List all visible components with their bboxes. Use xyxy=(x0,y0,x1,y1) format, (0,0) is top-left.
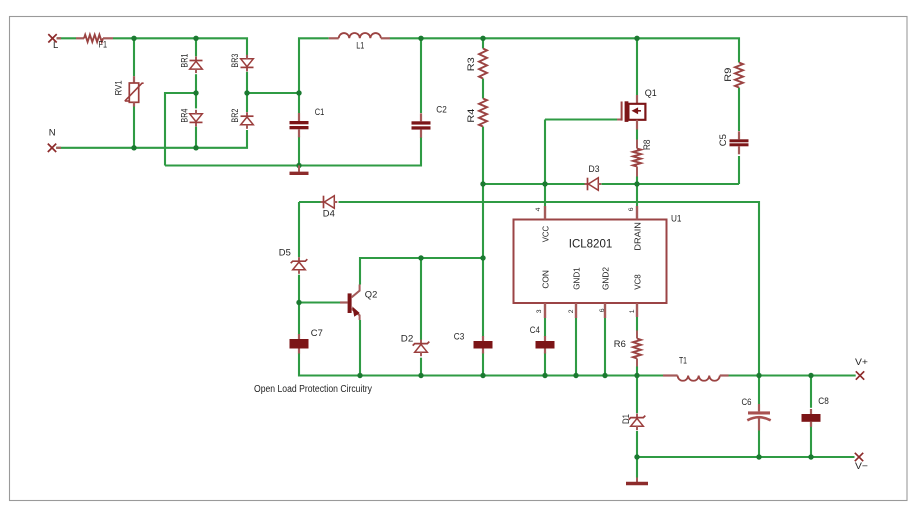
bridge diode BR1 xyxy=(195,57,197,61)
U1 pin 4 VCC xyxy=(544,206,546,220)
wire: Q2 base wire xyxy=(299,301,340,303)
diode D4 xyxy=(321,201,324,203)
svg-text:C2: C2 xyxy=(436,104,447,115)
inductor T1 xyxy=(663,374,678,376)
svg-text:L: L xyxy=(53,40,58,51)
wire: C4 bottom lead xyxy=(544,352,546,375)
svg-text:F1: F1 xyxy=(99,40,108,51)
svg-text:DRAIN: DRAIN xyxy=(634,222,643,251)
wire: R3-R4 link xyxy=(482,79,484,99)
fuse F1 xyxy=(76,37,84,39)
svg-text:2: 2 xyxy=(568,309,575,313)
junction dots on ground rail xyxy=(357,373,362,378)
wire: mid node to C1 top xyxy=(247,93,299,113)
junction dots on VCC/D3 rail xyxy=(480,181,485,186)
wire: L input rail from terminal to fuse xyxy=(57,37,76,39)
wire: rectified + node to L1 (C1 top branch) xyxy=(299,38,329,93)
wire: VCC rail segment R4 junction to D3 xyxy=(483,183,585,185)
U1 pin 6 DRAIN xyxy=(636,206,638,220)
wire: C8 bottom lead xyxy=(810,422,812,457)
wire: VCB pin to R6 xyxy=(636,317,638,331)
zener diode D5 xyxy=(298,257,300,261)
wire: GND2 pin to ground rail xyxy=(604,318,606,376)
capacitor C6 xyxy=(758,404,760,411)
svg-text:VC8: VC8 xyxy=(634,274,643,290)
wire: BR4 bottom to N rail xyxy=(195,127,197,148)
svg-text:D4: D4 xyxy=(323,209,335,220)
wire: L rail from fuse to BR3 top xyxy=(113,38,247,57)
wire: Q2 emitter to ground rail xyxy=(359,320,361,376)
svg-text:6: 6 xyxy=(599,308,606,312)
svg-text:BR3: BR3 xyxy=(230,54,240,68)
capacitor C7 xyxy=(298,334,300,339)
svg-text:C6: C6 xyxy=(742,397,752,408)
svg-text:R6: R6 xyxy=(614,339,626,350)
wire: R4 bottom down to open-load rail xyxy=(482,127,484,259)
wire: BR4 top lead xyxy=(195,93,197,108)
zener diode D2 xyxy=(420,340,422,344)
junction dot at Q2 base node xyxy=(296,300,301,305)
svg-text:R3: R3 xyxy=(466,57,476,71)
wire: T1 output to V+ terminal xyxy=(728,374,855,376)
wire: Q1 gate wire xyxy=(545,118,617,120)
terminal L xyxy=(48,34,56,42)
svg-text:GND2: GND2 xyxy=(602,266,611,290)
svg-text:CON: CON xyxy=(542,270,551,289)
svg-text:BR4: BR4 xyxy=(179,109,189,123)
svg-text:4: 4 xyxy=(535,207,542,211)
svg-text:D5: D5 xyxy=(279,248,291,259)
svg-text:R9: R9 xyxy=(723,68,733,82)
terminal V+ xyxy=(856,371,864,379)
wire: R3 top lead xyxy=(482,38,484,48)
ground at V- rail xyxy=(636,478,638,483)
wire: bridge minus jog to ground rail xyxy=(165,93,196,166)
svg-text:C5: C5 xyxy=(718,134,728,146)
svg-text:C1: C1 xyxy=(315,107,325,118)
svg-text:BR1: BR1 xyxy=(179,54,189,68)
wire: BR3 bottom to mid node xyxy=(246,72,248,93)
resistor R3 xyxy=(479,49,487,79)
svg-text:BR2: BR2 xyxy=(230,109,240,123)
wire: feedback column to C3 top xyxy=(482,258,484,337)
svg-text:RV1: RV1 xyxy=(113,80,123,95)
capacitor C8 xyxy=(810,409,812,414)
wire: D1 top lead xyxy=(636,376,638,414)
svg-text:ICL8201: ICL8201 xyxy=(569,236,613,250)
wire: protection column D4 to D5 xyxy=(298,202,300,257)
transistor Q1 xyxy=(636,95,638,104)
terminal V- xyxy=(855,453,863,461)
svg-text:N: N xyxy=(49,127,56,138)
resistor R9 xyxy=(735,63,743,88)
wire: D4 output rail to V+ column xyxy=(339,202,760,404)
junction dots on N rail xyxy=(131,145,136,150)
wire: D2 top lead xyxy=(420,258,422,340)
wire: V- rail to ground stem xyxy=(636,457,638,478)
wire: C5 bottom to snubber rail corner xyxy=(738,156,740,184)
zener diode D1 xyxy=(636,414,638,418)
bridge diode BR3 xyxy=(246,67,248,71)
svg-text:C8: C8 xyxy=(818,396,829,407)
wire: N rail from terminal to BR2 bottom xyxy=(56,130,247,148)
wire: gate column down to VCC node xyxy=(544,120,546,207)
wire: ground rail C1 bottom to C2 bottom xyxy=(165,137,421,166)
svg-text:D2: D2 xyxy=(401,333,414,344)
svg-text:3: 3 xyxy=(536,309,543,313)
wire: Q1 source to R8 xyxy=(636,130,638,140)
wire: Q2 base node to C7 top xyxy=(298,303,300,335)
transistor Q2 xyxy=(340,301,348,303)
inductor L1 xyxy=(329,37,339,39)
wire: C8 top lead xyxy=(810,376,812,408)
wire: D2 bottom to ground rail xyxy=(420,358,422,376)
svg-text:R4: R4 xyxy=(466,108,476,122)
svg-text:V−: V− xyxy=(855,461,868,472)
wire: Q2 collector to open-load rail xyxy=(360,258,483,285)
junction dots on bridge mid nodes xyxy=(193,90,198,95)
IC U1 ICL8201 xyxy=(514,220,667,304)
wire: BR2 top lead xyxy=(246,93,248,112)
svg-text:C3: C3 xyxy=(454,331,465,342)
wire: BR1 bottom to mid node xyxy=(195,74,197,93)
svg-text:R8: R8 xyxy=(642,139,652,150)
wire: R9 to C5 link xyxy=(738,88,740,132)
bridge diode BR4 xyxy=(195,122,197,126)
capacitor C5 xyxy=(738,131,740,139)
junction dots on open-load rail xyxy=(418,255,423,260)
ground at C1 xyxy=(298,166,300,172)
svg-text:C4: C4 xyxy=(530,325,540,336)
wire: C1 bottom lead xyxy=(298,137,300,166)
resistor R8 xyxy=(636,140,638,149)
svg-text:D3: D3 xyxy=(589,164,600,175)
svg-text:Open Load Protection Circuitry: Open Load Protection Circuitry xyxy=(254,384,372,395)
svg-text:V+: V+ xyxy=(855,357,868,368)
bridge diode BR2 xyxy=(246,112,248,116)
wire: C6 bottom lead to V- rail xyxy=(758,431,760,458)
wire: CON pin to C4 top xyxy=(544,318,546,337)
svg-text:Q2: Q2 xyxy=(365,289,378,300)
svg-text:Q1: Q1 xyxy=(645,88,657,99)
U1 pin 3 CON xyxy=(544,303,546,318)
svg-text:GND1: GND1 xyxy=(573,267,582,290)
wire: GND1 pin to ground rail xyxy=(575,318,577,376)
wire: C2 top lead xyxy=(420,38,422,113)
svg-text:1: 1 xyxy=(629,309,636,313)
wire: D1 bottom to V- rail xyxy=(636,431,638,457)
svg-text:VCC: VCC xyxy=(542,226,551,243)
svg-text:C7: C7 xyxy=(311,328,323,339)
terminal N xyxy=(48,144,56,152)
svg-text:L1: L1 xyxy=(356,41,364,52)
junction dot at C1 ground node xyxy=(296,163,301,168)
diode D3 xyxy=(585,183,588,185)
capacitor C4 xyxy=(544,336,546,341)
U1 pin 5 GND2 xyxy=(604,303,606,318)
wire: L1 output rail to R9 top xyxy=(390,38,739,62)
junction dots on V+ rail xyxy=(756,373,761,378)
U1 pin 1 VCB xyxy=(636,303,638,317)
svg-text:U1: U1 xyxy=(671,213,682,224)
wire: D5 bottom to Q2 base node xyxy=(298,275,300,303)
svg-text:T1: T1 xyxy=(679,356,687,367)
wire: RV1 lower lead xyxy=(133,107,135,148)
wire: BR1 top lead xyxy=(195,38,197,56)
wire: C3 bottom lead xyxy=(482,352,484,375)
wire: RV1 upper lead xyxy=(133,38,135,76)
wire: C7 bottom to ground rail corner xyxy=(299,353,663,376)
junction dots on L rail xyxy=(131,36,136,41)
wire: V- rail xyxy=(637,456,855,458)
capacitor C2 xyxy=(420,113,422,121)
wire: D3 to drain-snubber junction xyxy=(602,183,740,185)
varistor RV1 xyxy=(133,76,135,83)
wire: R8 bottom to drain pin node xyxy=(636,177,638,207)
svg-text:D1: D1 xyxy=(621,414,631,424)
wire: Q1 drain from top rail xyxy=(636,38,638,95)
svg-text:6: 6 xyxy=(628,207,635,211)
junction dots on L1 output rail xyxy=(418,36,423,41)
wire: R6 bottom to ground rail xyxy=(636,367,638,376)
resistor R4 xyxy=(479,99,487,127)
wire: D4 left lead to protection corner xyxy=(299,201,321,203)
junction dots on V- rail xyxy=(634,454,639,459)
capacitor C3 xyxy=(482,336,484,341)
U1 pin 2 GND1 xyxy=(575,303,577,318)
capacitor C1 xyxy=(298,113,300,121)
resistor R6 xyxy=(636,331,638,339)
